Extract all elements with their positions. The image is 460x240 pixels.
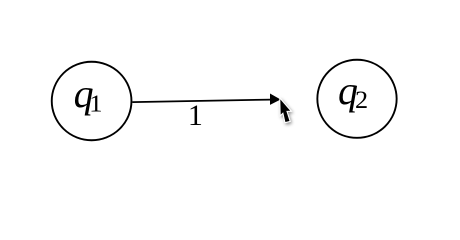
svg-text:2: 2 [355,86,368,114]
state q1 [52,62,132,141]
state q2 [317,60,396,138]
arrowhead [270,94,281,105]
wire: transition q1 -> q2 [132,100,271,103]
svg-text:1: 1 [89,90,102,117]
mouse cursor [280,99,290,122]
svg-text:1: 1 [188,99,203,132]
